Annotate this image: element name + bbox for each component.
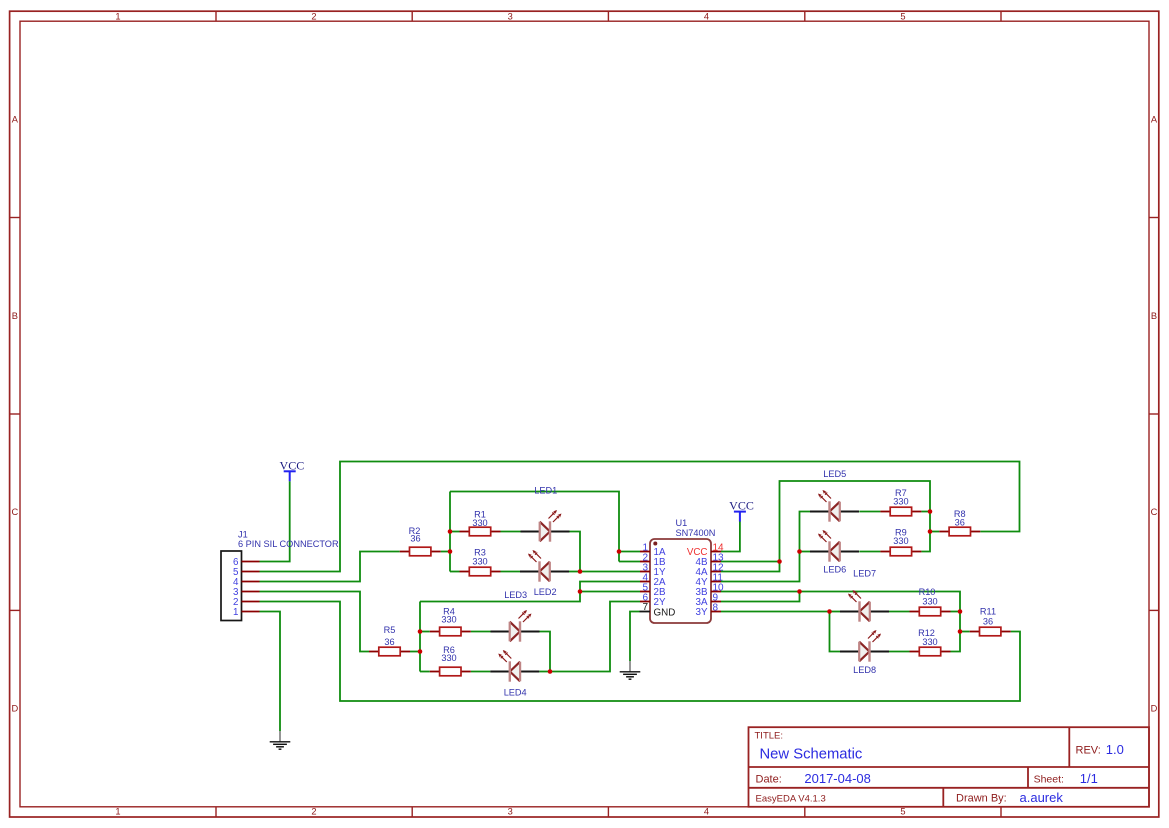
node U1 pin1 junction [617,549,622,554]
ground symbol below J1 [270,731,291,749]
wire LED4 out to junction [539,671,550,673]
wire R2 right to node [441,551,450,553]
resistor R4 330 [430,607,471,636]
title block [749,727,1150,807]
svg-text:3: 3 [508,807,513,817]
svg-text:1: 1 [115,11,120,21]
node R2-R3 junction [448,549,453,554]
node pin10 net junction [797,589,802,594]
svg-text:330: 330 [893,497,908,507]
svg-text:LED6: LED6 [823,565,846,575]
wire junction to U1 pin6 [550,602,640,672]
wire LED7 out to R10 [889,611,910,613]
svg-text:C: C [11,507,18,517]
node 4Y-LED6 junction [797,549,802,554]
wire LED5 out to R7 [859,511,880,513]
LED LED5 [810,490,859,522]
wire pins4-5 net horizontal [420,582,640,602]
LED LED6 [810,530,859,562]
wire rail to U1 pin2 [619,561,640,563]
wire U1 pin12 up LED5 rail [721,481,930,572]
svg-text:LED8: LED8 [853,665,876,675]
wire J1 pin5 to top rail to R8 [260,462,1020,572]
wire U1 pin13 to junction [721,561,780,563]
svg-text:D: D [1151,704,1158,714]
wire J1 pin1 to ground [260,612,281,732]
resistor R9 330 [880,528,921,556]
svg-text:TITLE:: TITLE: [755,730,784,741]
wire LED8 out to R12 [889,651,910,653]
svg-text:2Y: 2Y [654,597,666,608]
wire U1 pin11 up to LED5 LED6 [721,512,810,582]
svg-text:B: B [1151,311,1157,321]
wire U1 pin9 up to pin10 net [721,592,800,602]
svg-text:R11: R11 [980,607,996,617]
wire LED2 out to junction [569,571,580,573]
svg-text:1: 1 [233,607,238,618]
svg-text:J1: J1 [238,530,248,540]
svg-text:a.aurek: a.aurek [1020,790,1064,805]
svg-text:5: 5 [900,11,905,21]
svg-text:36: 36 [955,518,965,528]
wire U1 pin10 to R12 net [721,592,960,652]
wire R4 to LED3 [471,631,491,633]
svg-text:U1: U1 [676,518,688,528]
wire node to R11 left [960,631,970,633]
resistor R7 330 [880,488,921,516]
svg-text:8: 8 [713,602,719,613]
power VCC symbol at U1 pin14 [729,499,754,522]
node U1 pin5 junction [578,589,583,594]
LED LED8 [840,630,889,662]
LED LED1 [521,510,570,542]
wire U1 pin14 to VCC [721,522,740,552]
node 3Y junction [827,609,832,614]
wire LED6 out to R9 [859,551,880,553]
resistor R10 330 [910,587,951,616]
node U1 pin13 junction [777,559,782,564]
svg-text:2017-04-08: 2017-04-08 [804,771,871,786]
svg-text:330: 330 [441,653,456,663]
wire LED3 out down [540,632,551,672]
wire junction to U1 pin3 [580,571,640,573]
node R11 in junction [958,629,963,634]
svg-text:C: C [1151,507,1158,517]
wire J1 pin4 to R2 [260,552,400,582]
svg-text:3: 3 [508,11,513,21]
wire U1 pin8 to junction [721,611,830,613]
svg-text:1.0: 1.0 [1106,742,1124,757]
svg-text:B: B [12,311,18,321]
wire LED1 out down [570,532,581,572]
node R10 out junction [958,609,963,614]
svg-text:REV:: REV: [1076,745,1101,757]
ground symbol at U1 pin7 [620,661,641,679]
resistor R3 330 [460,548,501,576]
svg-text:330: 330 [893,536,908,546]
op-amp U1 SN7400N quad NAND IC [640,518,725,623]
wire junction to LED7 [830,611,841,613]
svg-text:VCC: VCC [729,499,754,513]
node R4 junction [418,629,423,634]
svg-text:2: 2 [311,807,316,817]
svg-text:330: 330 [922,637,937,647]
resistor R11 36 [970,607,1011,636]
svg-text:1/1: 1/1 [1080,771,1098,786]
LED LED7 [840,590,889,622]
resistor R8 36 [939,509,980,536]
wire J1 pin3 to R5 [260,592,370,652]
wire R7 right to node [921,511,930,513]
node LED3-LED4 out junction [548,669,553,674]
wire node to R8 left [930,531,939,533]
resistor R1 330 [460,509,501,536]
svg-text:GND: GND [654,608,676,619]
wire LED1 net rail [450,492,619,562]
wire node to R1 left [450,531,460,533]
svg-text:LED1: LED1 [534,485,557,495]
svg-text:EasyEDA V4.1.3: EasyEDA V4.1.3 [756,794,826,805]
wire node A vertical R1 R2 R3 [449,492,451,572]
wire R5 right to node [410,651,420,653]
wire VCC to J1 pin6 [260,481,290,561]
resistor R12 330 [910,628,951,656]
svg-text:LED2: LED2 [534,587,557,597]
svg-text:6 PIN SIL CONNECTOR: 6 PIN SIL CONNECTOR [238,539,339,549]
svg-text:VCC: VCC [280,458,305,472]
resistor R2 36 [400,526,441,556]
svg-text:3Y: 3Y [696,607,708,618]
node R5 junction [418,649,423,654]
svg-text:330: 330 [441,615,456,625]
node R8 in junction [928,529,933,534]
svg-text:36: 36 [410,534,420,544]
svg-text:SN7400N: SN7400N [676,528,716,538]
node LED1-LED2 out junction [578,569,583,574]
wire J1 pin2 to bottom rail to R11 [260,602,1021,702]
LED LED2 [520,550,569,582]
svg-text:A: A [12,115,19,125]
wire junction down to LED8 [830,612,841,652]
node R1-R2 junction [448,529,453,534]
svg-text:330: 330 [472,557,487,567]
svg-text:5: 5 [900,807,905,817]
svg-text:4: 4 [704,11,709,21]
svg-text:A: A [1151,115,1158,125]
wire node to R4 left [420,631,430,633]
wire R3 to LED2 [501,571,521,573]
wire junction to U1 pin5 [580,591,640,593]
wire U1 pin7 to ground [630,612,640,662]
wire R1 to LED1 [501,531,521,533]
svg-text:LED4: LED4 [504,687,527,697]
wire rail to U1 pin1 [619,551,640,553]
node R7 out junction [928,509,933,514]
wire node to R6 left [420,671,430,673]
wire R10 right to node [951,611,961,613]
svg-text:LED5: LED5 [823,469,846,479]
svg-text:R5: R5 [384,625,396,635]
resistor R6 330 [430,645,471,676]
LED LED3 [491,610,540,642]
svg-text:330: 330 [922,596,937,606]
wire vertical R4 R5 R6 node [419,602,421,672]
wire node to LED6 [800,551,811,553]
svg-text:36: 36 [384,637,394,647]
wire R6 to LED4 [471,671,491,673]
svg-text:Sheet:: Sheet: [1034,773,1064,785]
svg-text:330: 330 [472,518,487,528]
svg-text:2: 2 [311,11,316,21]
LED LED4 [490,650,539,682]
svg-text:7: 7 [642,602,648,613]
svg-text:1: 1 [115,807,120,817]
wire node to R3 left [450,571,460,573]
svg-text:Date:: Date: [756,773,782,785]
svg-text:LED7: LED7 [853,568,876,578]
svg-text:36: 36 [983,617,993,627]
svg-text:Drawn By:: Drawn By: [956,793,1007,805]
svg-text:New Schematic: New Schematic [760,747,863,763]
svg-text:D: D [11,704,18,714]
svg-text:4: 4 [704,807,709,817]
resistor R5 36 [369,625,410,656]
connector J1 6 PIN SIL CONNECTOR [221,530,339,621]
power VCC symbol left [280,458,305,481]
svg-text:LED3: LED3 [504,590,527,600]
